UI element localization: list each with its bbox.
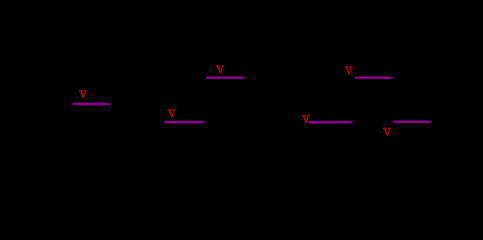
up-bow mark V5 <box>345 66 353 75</box>
bar 5 <box>355 77 394 79</box>
bar 2 <box>164 121 203 123</box>
up-bow mark V2 <box>168 109 176 118</box>
bar 4 <box>308 121 353 123</box>
bar 1 (purple line, note/slur segment) <box>72 103 112 105</box>
up-bow mark V1 <box>79 90 87 99</box>
up-bow mark V6 <box>383 128 391 137</box>
bar 3 <box>206 77 246 79</box>
up-bow mark V3 <box>216 65 224 74</box>
bar 6 <box>392 121 432 123</box>
up-bow mark V4 <box>302 115 310 124</box>
